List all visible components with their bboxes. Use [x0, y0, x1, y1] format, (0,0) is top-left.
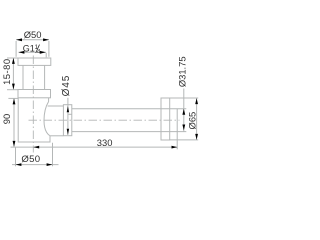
horizontal outlet pipe top: [72, 108, 187, 110]
arrow Ø65 up: [195, 98, 198, 104]
outlet bell top line: [48, 105, 64, 107]
dim 15-80: dimension line: [12, 58, 14, 90]
dim Ø65: dimension line: [196, 98, 198, 140]
arrow 90 bottom: [13, 141, 16, 147]
arrow 330 left: [33, 146, 39, 149]
svg-text:4: 4: [37, 49, 41, 56]
arrow G right: [40, 51, 46, 54]
dim Ø50 top: extension lines: [16, 41, 49, 57]
dim Ø45: dimension line: [67, 98, 69, 135]
nut inner step line: [68, 113, 72, 115]
svg-text:G1: G1: [23, 43, 35, 53]
dim 15-80: bottom extension: [7, 89, 18, 91]
dim Ø31.75: dimension line: [183, 89, 185, 132]
arrow 15-80 bottom: [12, 84, 15, 90]
outlet bell bottom line: [50, 135, 64, 137]
dim 90: dimension line: [13, 98, 15, 146]
arrow Ø50 bottom left: [16, 163, 22, 166]
svg-text:Ø45: Ø45: [61, 75, 72, 97]
arrow 330 right: [172, 146, 178, 149]
horizontal outlet pipe bottom: [72, 131, 187, 133]
arrow 90 top: [13, 99, 16, 105]
wall escutcheon flange: [161, 98, 170, 140]
horizontal centerline: [29, 119, 180, 121]
arrow Ø50 top left: [16, 38, 22, 41]
trap body lid: [18, 90, 51, 98]
arrow Ø31.75 up: [182, 109, 185, 115]
svg-text:330: 330: [97, 137, 113, 148]
dim Ø65: extension lines: [170, 98, 199, 140]
dim G1 1/4: dimension line: [19, 51, 46, 53]
arrow 15-80 top: [12, 58, 15, 64]
dim 330: dimension line with left extension overlap: [11, 146, 177, 148]
dim 15-80: top extension: [7, 57, 18, 59]
arrow G left: [19, 51, 25, 54]
dim Ø50 bottom: dimension line: [12, 164, 59, 166]
top trim flange: [18, 58, 51, 65]
dim Ø50 bottom: left extension: [15, 148, 17, 167]
adjustable tailpipe: [23, 65, 45, 89]
cup waist curve: [44, 102, 50, 136]
svg-text:Ø31.75: Ø31.75: [176, 56, 187, 87]
svg-text:Ø50: Ø50: [24, 29, 42, 40]
dim Ø50 top: dimension line: [16, 39, 49, 41]
dim Ø50 bottom: right extension: [52, 143, 54, 166]
vertical centerline: [32, 56, 34, 153]
arrow Ø31.75 down: [182, 125, 185, 131]
label fraction slash: [36, 45, 40, 53]
dim G1 1/4: right extension: [45, 53, 47, 58]
svg-text:Ø50: Ø50: [21, 154, 40, 165]
dim 90: top extension: [8, 97, 18, 99]
svg-text:15-80: 15-80: [1, 58, 12, 84]
arrow Ø50 top right: [43, 38, 49, 41]
pipe stub end face: [176, 109, 178, 150]
coupling nut: [63, 105, 71, 136]
cup right edge upper stub: [48, 98, 50, 102]
trap cup left and bottom: [18, 98, 50, 142]
svg-text:90: 90: [1, 114, 12, 124]
arrow Ø50 bottom right: [47, 163, 53, 166]
svg-text:Ø65: Ø65: [187, 112, 198, 130]
arrow Ø45 up: [67, 106, 69, 112]
arrow Ø45 down: [67, 129, 69, 135]
arrow Ø65 down: [195, 134, 198, 140]
